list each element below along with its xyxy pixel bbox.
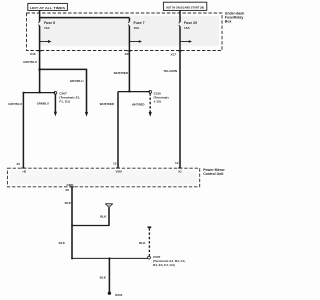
fuse F7 value label [134, 21, 145, 30]
svg-text:HOT IN ON (II) AND START (III): HOT IN ON (II) AND START (III) [166, 5, 204, 9]
fuse F6 branch arrow (to other circuits) [40, 40, 52, 43]
wire WHT/RED from fuse 7 [114, 51, 130, 92]
svg-text:Fuse 7: Fuse 7 [134, 21, 145, 25]
wire BLK from control unit GND [59, 187, 72, 258]
connector C507 (bottom) circle [148, 256, 151, 259]
wire BLK to ground [100, 258, 110, 292]
under-dash fuse/relay box (dashed enclosure) [27, 13, 223, 51]
svg-text:X17: X17 [171, 53, 177, 57]
hot-in-on-start label box [163, 2, 206, 10]
fuse box exit terminal X16 [30, 51, 42, 56]
continuation triangle symbol [105, 204, 112, 208]
hot-at-all-times label box [28, 3, 68, 10]
svg-text:26: 26 [65, 188, 69, 192]
fuse F20 symbol [179, 10, 180, 50]
svg-text:YEL/GRN: YEL/GRN [163, 69, 178, 73]
svg-text:F1, G1): F1, G1) [59, 100, 70, 104]
node: fuse7 junction horizontal [118, 91, 150, 93]
power mirror control unit label [203, 168, 225, 176]
control unit GND pin 26 [65, 183, 74, 192]
connector C510 (terminals 1-10) dashed drop [132, 90, 152, 116]
svg-text:BLK: BLK [100, 275, 107, 279]
fuse F20 branch arrow (to other circuits) [180, 40, 192, 43]
svg-text:GRY/BLU: GRY/BLU [8, 102, 23, 106]
fuse F7 symbol [128, 18, 129, 51]
svg-text:VBU: VBU [116, 169, 123, 173]
svg-text:BLK: BLK [65, 201, 72, 205]
connector C507 (terminals A4-G4) label [153, 255, 185, 267]
fuse box interior shading [38, 16, 219, 46]
svg-text:Fuse 6: Fuse 6 [44, 21, 55, 25]
svg-text:25: 25 [17, 162, 21, 166]
fuse F7 branch arrow (to other circuits) [129, 40, 142, 43]
svg-text:BLK: BLK [139, 241, 146, 245]
node: BLK junction horizontal at y225 [71, 225, 109, 227]
svg-text:HOT AT ALL TIMES: HOT AT ALL TIMES [30, 6, 65, 10]
svg-text:IG: IG [179, 170, 183, 174]
wire BLK from triangle [100, 207, 109, 225]
svg-text:12: 12 [175, 161, 179, 165]
control unit pin 13 (VBU) [113, 161, 123, 173]
svg-text:1-10): 1-10) [154, 99, 161, 103]
svg-text:X16: X16 [30, 52, 36, 56]
wire WHT/RED down to control unit pin 13 [100, 92, 118, 169]
svg-text:GND: GND [67, 183, 75, 187]
svg-text:WHT/RED: WHT/RED [132, 103, 145, 107]
under-dash fuse/relay box label [225, 12, 244, 24]
connector C510 label [154, 91, 170, 103]
svg-text:WHT/RED: WHT/RED [100, 102, 115, 106]
svg-text:GRN/BLU: GRN/BLU [37, 102, 49, 106]
node: fuse6 wire junction / horizontal to C507 [23, 91, 56, 93]
fuse F6 value label [44, 21, 55, 30]
wire: horizontal to C507 bottom [71, 258, 147, 260]
svg-text:13: 13 [113, 161, 117, 165]
control unit pin 25 (+B) [17, 162, 27, 174]
control unit pin 12 (IG) [175, 161, 182, 174]
svg-text:15A: 15A [184, 26, 190, 30]
svg-text:Control Unit: Control Unit [203, 172, 224, 176]
power mirror control unit (dashed box) [7, 168, 199, 187]
control unit interior shading [10, 171, 197, 185]
wire GRY/BLU from fuse 6 [23, 51, 39, 93]
svg-text:D4, E4, F4, G4): D4, E4, F4, G4) [153, 263, 175, 267]
svg-text:GRY/BLU: GRY/BLU [23, 60, 38, 64]
connector C507 label [59, 92, 80, 104]
fuse F20 value label [184, 21, 197, 30]
bus wire connecting fuse 6 and fuse 7 [40, 17, 130, 19]
fuse box exit terminal X08 [125, 51, 132, 56]
fuse box exit terminal X17 [171, 51, 183, 57]
wire GRY/BLU down to control unit pin 25 [8, 93, 23, 169]
svg-text:Fuse 20: Fuse 20 [184, 21, 197, 25]
svg-text:WHT/RED: WHT/RED [114, 71, 129, 75]
ground G501 [108, 292, 123, 298]
connector C507 (terminals E1, F1, G1) [37, 91, 57, 116]
wire YEL/GRN from fuse 20 to control unit pin 12 [163, 51, 180, 168]
svg-text:Box: Box [225, 19, 232, 23]
wire GRY/BLU branch to arrow [39, 68, 89, 117]
svg-text:BLK: BLK [100, 215, 107, 219]
svg-text:BLK: BLK [59, 241, 66, 245]
wire BLK dashed drop to connector C507 [139, 227, 151, 256]
svg-text:15A: 15A [44, 26, 50, 30]
fuse F6 symbol [38, 10, 39, 50]
svg-text:15A: 15A [134, 26, 140, 30]
svg-text:GRY/BLU: GRY/BLU [70, 79, 85, 83]
svg-text:G501: G501 [115, 293, 123, 297]
